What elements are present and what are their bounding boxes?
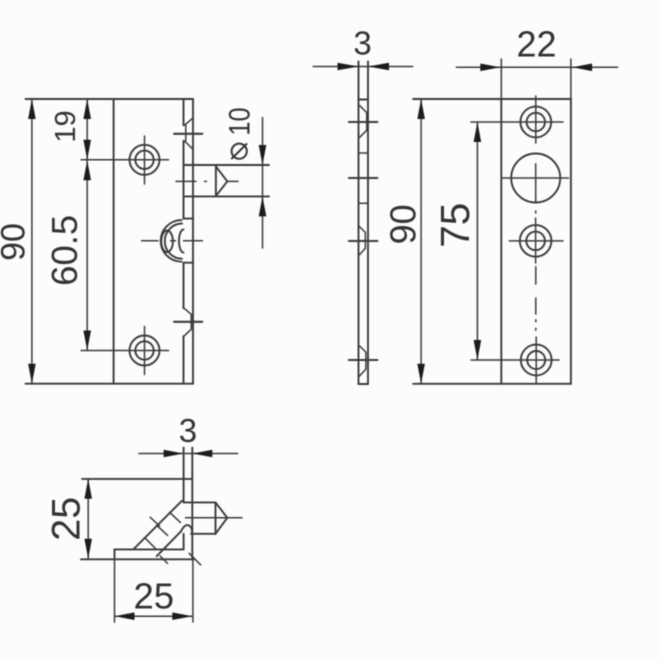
right view big hole centerlines (502, 164, 569, 202)
view1 flange inner line (183, 99, 185, 384)
arrow 90 left top (28, 99, 36, 119)
arrow 25 vertical top (84, 479, 92, 499)
dimension 25 vertical line (87, 479, 89, 559)
middle view left edge (358, 61, 360, 384)
arrow 90 left bottom (28, 364, 36, 384)
brace rung 3 (157, 525, 168, 535)
right view left edge (500, 99, 502, 384)
arrow 60.5 top (83, 160, 91, 180)
svg-text:75: 75 (432, 203, 478, 248)
right view centerline dot 1 (535, 211, 537, 213)
countersink top tick (174, 133, 202, 135)
svg-text:3: 3 (179, 412, 197, 449)
hole H1 inner circle (135, 151, 153, 169)
middle view big hole rungs (359, 153, 369, 203)
countersink mark top on flange edge (185, 119, 193, 149)
bottom view pin cone base (215, 502, 217, 533)
middle view top cap (359, 99, 369, 101)
dimension 25 horizontal line (115, 615, 193, 617)
arrow 22 right (572, 64, 592, 72)
bottom view leg top edge (115, 548, 184, 550)
svg-text:25: 25 (133, 576, 174, 617)
right view big hole circle (511, 154, 560, 203)
arrow 90 right top (417, 99, 425, 119)
right view hole R3 centerlines (509, 218, 563, 263)
dimension 75: line (476, 122, 478, 360)
svg-text:90: 90 (383, 204, 424, 244)
brace lower edge with hook (157, 525, 192, 556)
middle view hole4 countersink (359, 346, 366, 376)
pin side view bottom line (184, 195, 270, 197)
right view hole R4 inner circle (527, 351, 545, 369)
svg-text:60.5: 60.5 (44, 215, 85, 286)
right view hole R4 outer circle (521, 345, 552, 376)
right view hole R1 centerlines (471, 96, 563, 143)
svg-text:22: 22 (516, 24, 556, 65)
countersink mark bottom on flange edge (184, 308, 191, 336)
dome top line (184, 218, 194, 220)
middle view hole1 countersink (360, 106, 367, 138)
dimension 22 line (456, 66, 617, 68)
arrow 75 top (474, 122, 482, 142)
dome inner arc (179, 230, 184, 253)
arrow 3 bottom right (192, 450, 212, 458)
arrow 19 top (83, 99, 91, 119)
right view top edge with extension (413, 98, 571, 100)
right view hole R4 centerlines (471, 337, 559, 383)
brace rung 4 (145, 538, 156, 549)
dome centerline (142, 240, 203, 242)
bottom view pin centerline (186, 517, 243, 519)
brace rung 1 stub (150, 517, 159, 526)
hole H2 centerlines (81, 327, 169, 375)
right view centerline dashes (535, 267, 537, 330)
dome middle arc (165, 224, 182, 259)
svg-text:10: 10 (223, 107, 256, 135)
brace lower stub (160, 556, 167, 563)
pin cone edges (216, 166, 227, 196)
pin cone base (215, 166, 217, 196)
right view hole R1 outer circle (520, 107, 551, 138)
dimension 3 bottom: line (139, 453, 238, 455)
label D10 diameter symbol (231, 143, 247, 159)
arrow 22 left (480, 64, 500, 72)
dimension 22 extension lines (501, 59, 571, 99)
bottom view flange right line (191, 448, 193, 560)
bottom view leg left edge (114, 549, 116, 559)
arrow 19 bottom (83, 140, 91, 160)
dome outer arc (161, 220, 182, 262)
view1 plate right edge (192, 99, 194, 384)
dimension 25 horizontal extension lines (115, 559, 193, 622)
arrow D10 bottom (259, 196, 267, 216)
view1 plate left edge (113, 99, 115, 384)
bottom view pin bottom line (191, 533, 216, 535)
arrow D10 top (259, 145, 267, 165)
arrow 3 top right (368, 63, 389, 71)
dimension 19/60.5: line (86, 99, 88, 351)
svg-text:90: 90 (0, 223, 33, 261)
svg-text:19: 19 (50, 110, 82, 142)
arrow 25 horizontal right (172, 612, 192, 620)
dimension D10: line (262, 118, 264, 249)
right view hole R3 inner circle (526, 232, 545, 251)
view1 plate top edge with extension (26, 98, 194, 100)
middle view hole1 tick (349, 121, 378, 123)
pin side view top line (184, 164, 270, 166)
countersink bottom tick (174, 321, 202, 323)
arrow 60.5 bottom (83, 331, 91, 351)
arrow 90 right bottom (417, 364, 425, 384)
middle view hole3 countersink (360, 227, 366, 255)
right view right edge (570, 99, 572, 384)
bottom view leg bottom edge with extension (81, 558, 193, 560)
hole H2 inner circle (135, 341, 153, 359)
hole H2 outer circle (130, 336, 160, 366)
bottom view flange left line (183, 448, 185, 550)
right view bottom edge with extension (413, 383, 571, 385)
middle view big hole tick (349, 177, 378, 179)
dimension 3 top: line (313, 66, 413, 68)
arrow 25 vertical bottom (84, 539, 92, 559)
right view hole R1 inner circle (527, 113, 545, 131)
hole H1 centerlines (81, 136, 169, 184)
dimension 90 right: line (420, 99, 422, 384)
pin centerline (176, 180, 238, 182)
arrow 25 horizontal left (115, 612, 135, 620)
middle view hole4 tick (349, 359, 378, 361)
middle view bottom cap (359, 383, 369, 385)
brace rung 2 (170, 512, 181, 522)
dome tip ellipse (161, 231, 173, 253)
arrow 3 top left (338, 63, 359, 71)
arrow 75 bottom (474, 340, 482, 360)
hole H1 outer circle (130, 145, 160, 175)
middle view hole3 tick (349, 240, 378, 242)
bottom view pin cone edges (216, 502, 228, 533)
svg-text:25: 25 (45, 497, 89, 541)
bottom view pin top line (184, 501, 216, 503)
brace upper edge (134, 501, 182, 549)
middle view right edge (367, 61, 369, 384)
right view hole R3 outer circle (520, 225, 552, 257)
svg-text:3: 3 (353, 24, 371, 61)
dome bottom line (184, 262, 194, 264)
bottom view flange top cap with extension (82, 478, 192, 480)
arrow 3 bottom left (164, 450, 184, 458)
view1 plate bottom edge with extension (26, 383, 194, 385)
corner break stub right (189, 553, 201, 565)
dimension 90 left: line (31, 99, 33, 384)
